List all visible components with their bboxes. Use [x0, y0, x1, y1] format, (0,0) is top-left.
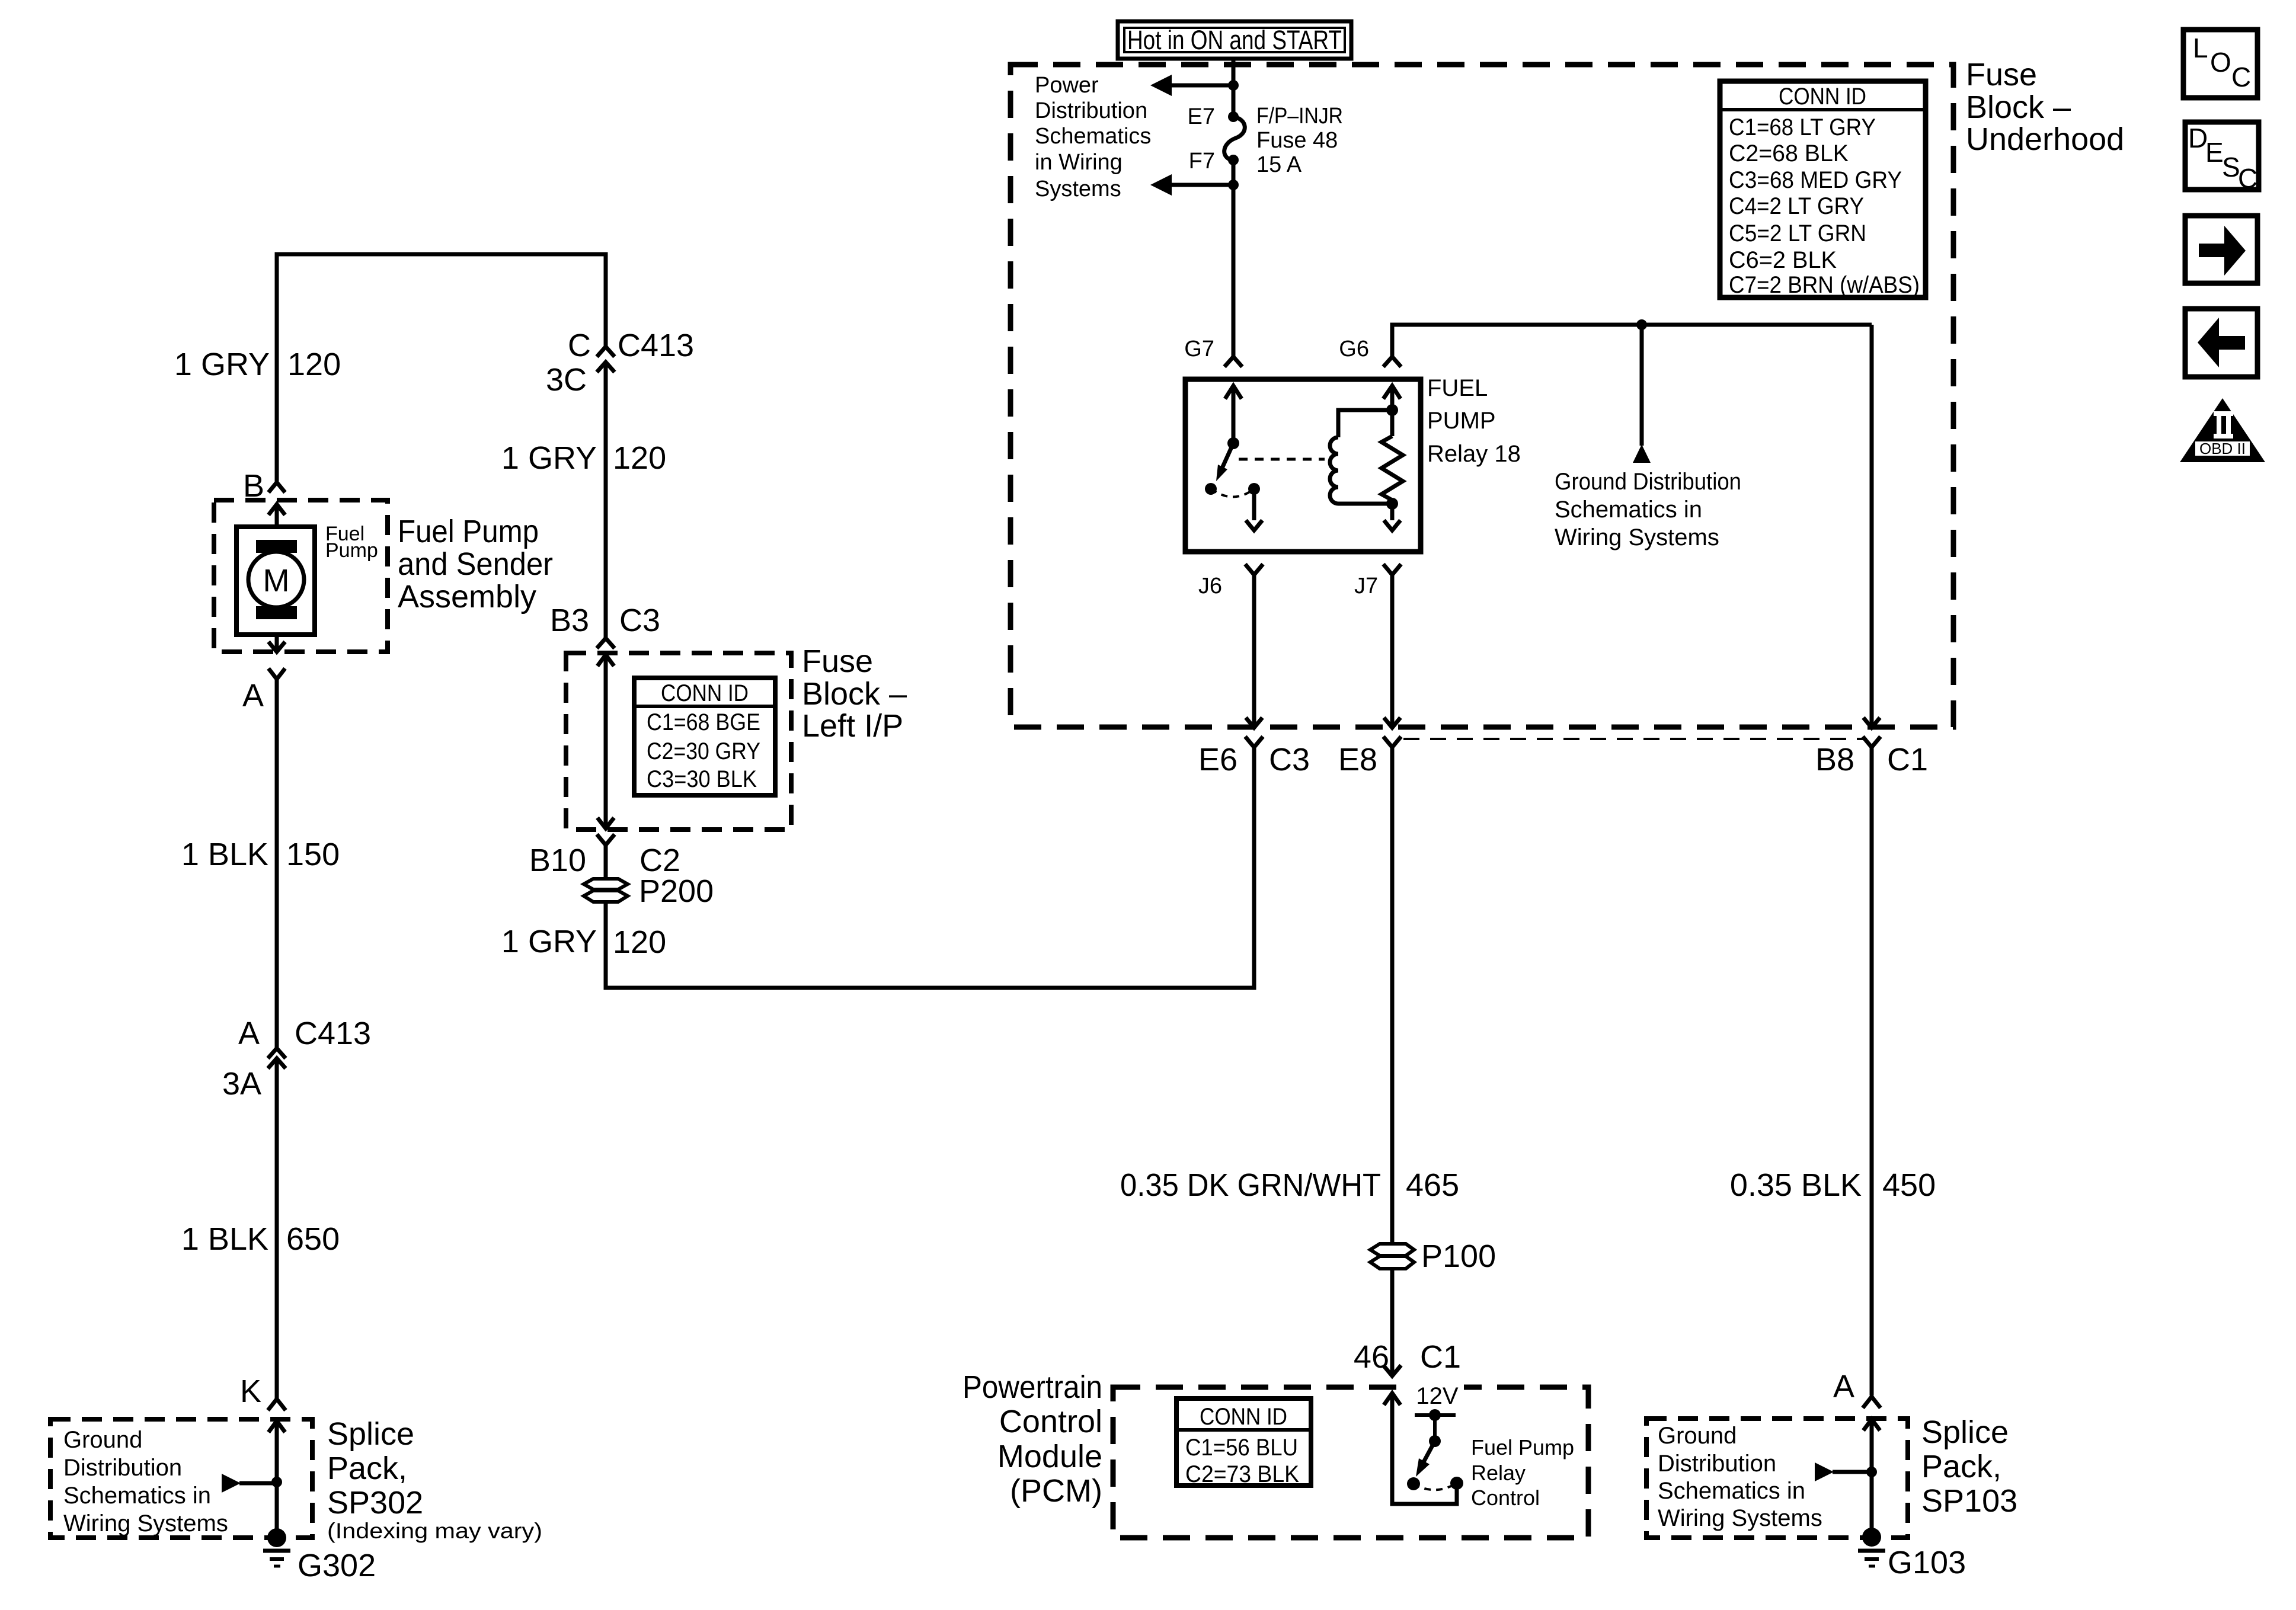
svg-text:G6: G6: [1339, 337, 1369, 361]
wire: J7 down to fuse block edge E8: [1384, 575, 1400, 728]
svg-text:Distribution: Distribution: [1035, 98, 1147, 123]
svg-text:C3=68 MED GRY: C3=68 MED GRY: [1729, 167, 1902, 193]
wire: 1 GRY 120 down to fuse block left IP: [604, 362, 608, 638]
wire: hot feed into fuse block: [1232, 59, 1236, 114]
harness boundary thin dashed line: [1403, 738, 1867, 740]
node: pcm switch open contact: [1450, 1477, 1463, 1490]
svg-text:0.35 DK GRN/WHT: 0.35 DK GRN/WHT: [1120, 1167, 1381, 1203]
label: Powertrain Control Module (PCM): [962, 1369, 1102, 1509]
node: E7 fuse terminal: [1228, 111, 1239, 122]
powertrain control module dashed outline: [1113, 1387, 1588, 1538]
svg-text:46: 46: [1354, 1339, 1389, 1375]
svg-text:Wiring Systems: Wiring Systems: [1658, 1505, 1822, 1531]
wire: out of fuel pump motor: [268, 635, 285, 652]
svg-text:C: C: [568, 328, 591, 363]
label box: Hot in ON and START: [1118, 21, 1351, 59]
svg-text:F7: F7: [1189, 149, 1215, 174]
svg-text:CONN ID: CONN ID: [1779, 84, 1866, 110]
fuel pump and sender assembly dashed outline: [214, 500, 388, 652]
svg-text:465: 465: [1406, 1167, 1459, 1203]
node: splice SP302: [271, 1477, 282, 1487]
svg-text:P100: P100: [1421, 1238, 1496, 1274]
svg-text:1 GRY: 1 GRY: [501, 924, 597, 959]
label: Fuse Block - Underhood: [1966, 57, 2124, 157]
svg-text:E8: E8: [1338, 742, 1377, 777]
relay U: FUEL PUMP Relay 18 box: [1185, 379, 1421, 552]
wire label: 1 BLK 150: [181, 837, 340, 872]
wire: into fuel pump motor: [268, 504, 285, 527]
relay coil: [1330, 410, 1392, 504]
svg-text:Schematics in: Schematics in: [63, 1483, 211, 1509]
relay switch movable arm: [1216, 443, 1233, 481]
pin A at SP103: [1833, 1369, 1881, 1408]
svg-text:(Indexing may vary): (Indexing may vary): [327, 1519, 542, 1543]
svg-text:Module: Module: [997, 1439, 1102, 1474]
ground G103: [1858, 1528, 1966, 1580]
svg-text:150: 150: [286, 837, 340, 872]
pin E8 connector chevron: [1383, 737, 1401, 747]
svg-text:Distribution: Distribution: [1658, 1451, 1776, 1477]
svg-text:C2=68 BLK: C2=68 BLK: [1729, 140, 1849, 167]
pin B8 connector chevron: [1863, 737, 1881, 747]
note: Ground Distribution Schematics in Wiring Systems (upper right): [1555, 469, 1741, 550]
wire label: 1 GRY 120 (below P200): [501, 924, 666, 960]
svg-text:G302: G302: [298, 1548, 376, 1583]
pin J6 connector chevron: [1245, 564, 1263, 575]
svg-text:M: M: [263, 563, 290, 598]
svg-text:15 A: 15 A: [1256, 152, 1302, 177]
svg-text:C7=2 BRN (w/ABS): C7=2 BRN (w/ABS): [1729, 272, 1920, 298]
pin B connector chevron: [268, 482, 285, 492]
wire label: 1 GRY 120 (left top): [174, 347, 341, 382]
connector C413 pin C in-line chevrons (right branch): [597, 347, 615, 372]
label: Fuel Pump and Sender Assembly: [398, 514, 553, 614]
svg-text:3A: 3A: [222, 1066, 261, 1102]
svg-text:O: O: [2210, 47, 2231, 78]
svg-text:E: E: [2205, 137, 2224, 168]
node: pcm switch output contact: [1407, 1477, 1420, 1490]
relay switch common arrow (pin G7 side): [1225, 386, 1242, 443]
pin J7 connector chevron: [1383, 564, 1401, 575]
legend icon: arrow right: [2185, 216, 2257, 283]
svg-text:P200: P200: [639, 873, 714, 909]
svg-text:Assembly: Assembly: [398, 579, 536, 614]
wire: splice branch arrow SP302: [222, 1474, 277, 1493]
pin G7 connector chevron: [1224, 357, 1242, 367]
svg-text:1 GRY: 1 GRY: [174, 347, 270, 382]
svg-text:E6: E6: [1198, 742, 1237, 777]
svg-text:Ground: Ground: [1658, 1423, 1737, 1449]
svg-text:Schematics in: Schematics in: [1658, 1478, 1805, 1504]
label: Fuel Pump Relay Control: [1471, 1435, 1574, 1510]
svg-text:Relay: Relay: [1471, 1461, 1526, 1485]
wire: 1 BLK 150 down to C413: [275, 679, 279, 1048]
fuse block underhood dashed outline: [1011, 65, 1953, 727]
relay coil suppression resistor: [1382, 386, 1403, 530]
wire: B10 down to P200: [604, 845, 608, 883]
pin B3 connector chevron: [597, 638, 615, 648]
svg-text:Ground Distribution: Ground Distribution: [1555, 469, 1741, 495]
svg-text:CONN ID: CONN ID: [1200, 1404, 1287, 1430]
svg-text:L: L: [2193, 33, 2208, 63]
svg-text:C3=30 BLK: C3=30 BLK: [647, 766, 757, 792]
svg-text:C1: C1: [1887, 742, 1928, 777]
svg-text:and Sender: and Sender: [398, 546, 553, 582]
node: splice SP103: [1866, 1467, 1877, 1477]
svg-text:Distribution: Distribution: [63, 1455, 182, 1481]
svg-text:Systems: Systems: [1035, 177, 1121, 201]
svg-text:J7: J7: [1354, 574, 1378, 598]
svg-text:C413: C413: [295, 1016, 371, 1051]
value label: F/P-INJR Fuse 48 15 A: [1256, 104, 1343, 177]
connector C413 pin A in-line chevrons: [268, 1048, 286, 1068]
node: F7 fuse terminal: [1228, 155, 1239, 165]
svg-text:Schematics: Schematics: [1035, 124, 1151, 149]
node: relay NC contact: [1205, 483, 1217, 495]
conn table: CONN ID (Fuse Block Underhood): [1720, 81, 1926, 298]
wire: into splice pack SP302: [268, 1421, 285, 1538]
svg-text:450: 450: [1882, 1167, 1936, 1203]
note: Ground Distribution Schematics in Wiring Systems (SP103): [1658, 1423, 1822, 1531]
svg-text:Wiring Systems: Wiring Systems: [63, 1510, 228, 1537]
wire: arrow to power distribution schematics (top): [1150, 75, 1233, 96]
svg-text:A: A: [1833, 1369, 1854, 1404]
node: coil top junction: [1386, 404, 1398, 416]
svg-text:1 BLK: 1 BLK: [181, 1221, 268, 1257]
node: relay switch pivot: [1227, 437, 1239, 449]
svg-text:B3: B3: [550, 603, 589, 638]
fuse F/P-INJR Fuse 48 15 A: [1224, 117, 1245, 161]
label: 12V: [1409, 1381, 1464, 1409]
pin G6 connector chevron: [1383, 357, 1401, 367]
svg-text:Wiring Systems: Wiring Systems: [1555, 524, 1719, 550]
svg-text:A: A: [238, 1016, 260, 1051]
svg-text:0.35 BLK: 0.35 BLK: [1730, 1167, 1862, 1203]
svg-text:SP103: SP103: [1921, 1483, 2017, 1519]
svg-text:G103: G103: [1888, 1545, 1966, 1580]
svg-text:(PCM): (PCM): [1010, 1473, 1102, 1509]
svg-text:Underhood: Underhood: [1966, 121, 2124, 157]
conn table: CONN ID (Fuse Block Left IP): [634, 678, 775, 795]
svg-text:C1=56 BLU: C1=56 BLU: [1185, 1435, 1298, 1461]
wire label: 1 GRY 120 (right branch): [501, 440, 666, 476]
wire: through fuse block left IP: [597, 655, 614, 828]
connector pass-through P200: [584, 873, 714, 909]
svg-text:in Wiring: in Wiring: [1035, 150, 1123, 175]
legend icon: DESC: [2185, 122, 2259, 194]
svg-text:K: K: [240, 1374, 261, 1409]
svg-text:G7: G7: [1184, 337, 1214, 361]
pin 46 / C1 at PCM: [1354, 1339, 1461, 1376]
wire: fuel pump relay control into PCM: [1384, 1393, 1457, 1504]
svg-text:Pack,: Pack,: [1921, 1449, 2001, 1484]
svg-text:C1=68 LT GRY: C1=68 LT GRY: [1729, 114, 1876, 140]
svg-text:Splice: Splice: [1921, 1414, 2009, 1450]
label: Splice Pack SP103: [1921, 1414, 2017, 1519]
svg-text:F/P–INJR: F/P–INJR: [1256, 104, 1343, 129]
wire: top horizontal 1 GRY branch: [277, 254, 606, 483]
svg-text:C4=2 LT GRY: C4=2 LT GRY: [1729, 193, 1864, 219]
wire label: 0.35 DK GRN/WHT 465: [1120, 1167, 1459, 1203]
conn table: CONN ID (PCM): [1176, 1398, 1311, 1487]
svg-text:B8: B8: [1815, 742, 1854, 777]
relay contact travel dashed arc: [1211, 489, 1254, 497]
wire: fuse output down to G7: [1232, 160, 1236, 356]
svg-text:Hot in ON and START: Hot in ON and START: [1127, 25, 1342, 55]
svg-text:120: 120: [287, 347, 341, 382]
node: relay NO contact: [1248, 483, 1260, 495]
svg-text:C2: C2: [639, 843, 680, 878]
node: coil bottom junction: [1386, 498, 1398, 510]
svg-text:Power: Power: [1035, 73, 1099, 98]
svg-text:650: 650: [286, 1221, 340, 1257]
pcm driver switch: 12V supply: [1415, 1409, 1456, 1447]
svg-text:C: C: [2238, 163, 2257, 194]
svg-text:C1: C1: [1420, 1339, 1461, 1375]
svg-text:B10: B10: [529, 843, 586, 878]
relay actuation dashed link: [1239, 458, 1325, 461]
wire: relay NO contact to J6 output: [1246, 489, 1262, 530]
pin K connector chevron: [268, 1399, 286, 1410]
legend icon: LOC: [2183, 30, 2257, 98]
svg-text:Left I/P: Left I/P: [802, 708, 903, 744]
splice pack SP302 ground distribution dashed outline: [50, 1419, 312, 1538]
svg-text:SP302: SP302: [327, 1485, 423, 1521]
svg-text:OBD II: OBD II: [2199, 440, 2246, 457]
svg-text:Fuse: Fuse: [1966, 57, 2037, 92]
svg-text:Control: Control: [999, 1404, 1102, 1439]
svg-text:120: 120: [613, 440, 666, 476]
svg-text:Control: Control: [1471, 1486, 1540, 1510]
connector pass-through P100: [1370, 1238, 1496, 1274]
label: Splice Pack SP302: [327, 1416, 542, 1543]
wire: J6 down to fuse block edge E6: [1246, 575, 1262, 728]
svg-text:Ground: Ground: [63, 1427, 142, 1453]
wire: splice branch arrow SP103: [1815, 1462, 1872, 1481]
pcm driver switch arm: [1416, 1441, 1435, 1477]
svg-text:Pack,: Pack,: [327, 1451, 407, 1486]
svg-text:PUMP: PUMP: [1427, 408, 1496, 434]
ground G302: [263, 1528, 376, 1583]
svg-text:Powertrain: Powertrain: [962, 1369, 1102, 1405]
svg-text:FUEL: FUEL: [1427, 375, 1488, 401]
svg-text:C2=30 GRY: C2=30 GRY: [647, 738, 760, 764]
svg-text:Splice: Splice: [327, 1416, 414, 1452]
svg-text:Fuse: Fuse: [802, 644, 873, 679]
wire: 0.35 DK GRN/WHT 465 (E8 down to PCM): [1390, 747, 1395, 1376]
label: Fuse Block - Left I/P: [802, 644, 907, 744]
svg-text:Fuel Pump: Fuel Pump: [1471, 1435, 1574, 1459]
svg-text:C1=68 BGE: C1=68 BGE: [647, 709, 760, 735]
svg-text:1 GRY: 1 GRY: [501, 440, 597, 476]
svg-text:Fuel Pump: Fuel Pump: [398, 514, 539, 549]
pcm switch travel dashed arc: [1414, 1483, 1457, 1490]
wire: underhood feed down right side to B8: [1863, 325, 1880, 728]
wire: arrow to power distribution schematics (bottom): [1150, 174, 1233, 196]
wire: B8 down to splice pack SP103: [1870, 747, 1874, 1395]
svg-text:CONN ID: CONN ID: [661, 680, 749, 706]
wire: into splice pack SP103: [1863, 1419, 1880, 1537]
wire label: 0.35 BLK 450: [1730, 1167, 1936, 1203]
node: junction to ground distribution: [1636, 319, 1647, 330]
svg-text:Pump: Pump: [325, 539, 378, 562]
legend icon: arrow left: [2185, 309, 2257, 377]
svg-text:J6: J6: [1198, 574, 1222, 598]
svg-text:3C: 3C: [546, 362, 587, 398]
svg-text:C413: C413: [618, 328, 694, 363]
svg-text:Block –: Block –: [802, 676, 907, 712]
node: junction to power distribution (top): [1228, 80, 1239, 91]
svg-text:C2=73 BLK: C2=73 BLK: [1185, 1461, 1299, 1487]
wire: E6 to P200 horizontal run: [606, 747, 1254, 988]
fuse block left IP dashed outline: [566, 653, 791, 830]
node: junction to power distribution (bottom): [1228, 180, 1239, 190]
pin B10 connector chevron: [597, 834, 615, 845]
svg-text:C3: C3: [619, 603, 660, 638]
note: Power Distribution Schematics in Wiring Systems: [1035, 73, 1151, 201]
wire: 1 BLK 650 down to splice pack: [275, 1058, 279, 1398]
motor M1: fuel pump motor: [236, 527, 315, 635]
svg-text:C: C: [2231, 62, 2251, 92]
note: Ground Distribution Schematics in Wiring Systems (SP302): [63, 1427, 228, 1537]
label: FUEL PUMP Relay 18: [1427, 375, 1521, 467]
pin A connector chevron: [268, 668, 285, 679]
wire: G6 feed from fuse block top right: [1392, 325, 1872, 357]
svg-text:C3: C3: [1269, 742, 1310, 777]
pin E6 connector chevron: [1245, 737, 1263, 747]
svg-text:C5=2 LT GRN: C5=2 LT GRN: [1729, 220, 1866, 247]
svg-text:Fuse 48: Fuse 48: [1256, 128, 1338, 153]
wire label: 1 BLK 650: [181, 1221, 340, 1257]
svg-text:E7: E7: [1188, 104, 1215, 129]
svg-text:Relay 18: Relay 18: [1427, 441, 1521, 467]
wire: stub to ground distribution schematics: [1633, 325, 1651, 463]
svg-text:1 BLK: 1 BLK: [181, 837, 268, 872]
label: Fuel Pump (inside assembly): [325, 523, 378, 562]
legend icon: OBD II: [2180, 398, 2265, 462]
svg-text:Schematics in: Schematics in: [1555, 497, 1702, 523]
svg-text:Block –: Block –: [1966, 89, 2071, 125]
svg-text:12V: 12V: [1416, 1383, 1458, 1409]
svg-text:C6=2 BLK: C6=2 BLK: [1729, 247, 1837, 273]
svg-text:A: A: [242, 678, 264, 713]
svg-text:120: 120: [613, 924, 666, 960]
splice pack SP103 ground distribution dashed outline: [1646, 1419, 1908, 1538]
